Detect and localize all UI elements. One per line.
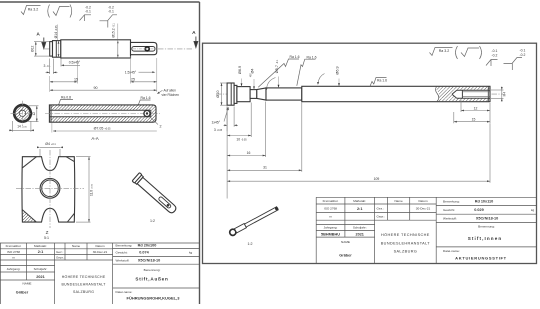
broken-out section: break line [436, 86, 439, 101]
svg-text:Ra 1.6: Ra 1.6 [307, 55, 317, 59]
end view: centerlines [11, 112, 35, 114]
svg-text:-0.1: -0.1 [492, 49, 498, 53]
svg-text:0.5x45°: 0.5x45° [69, 60, 81, 64]
sheet 2 (right) border frame [203, 43, 537, 263]
svg-text:31: 31 [263, 166, 267, 170]
svg-text:-0.1: -0.1 [85, 10, 91, 14]
svg-text:Stift,Innen: Stift,Innen [468, 236, 503, 241]
svg-text:Rd 10x110: Rd 10x110 [475, 199, 494, 203]
svg-text:HÖHERE TECHNISCHE: HÖHERE TECHNISCHE [62, 275, 106, 279]
head d10 [227, 83, 234, 105]
cone taper [257, 88, 266, 100]
roughness flag Ra 1.6 (on shaft) [370, 78, 387, 87]
dim 109 [227, 107, 490, 199]
end view: dim 14 below [9, 121, 34, 132]
svg-text:Ra 1.6: Ra 1.6 [141, 96, 151, 100]
title block sheet 2: left column texts [323, 199, 431, 244]
end view: concentric circles [14, 104, 32, 122]
svg-text:Rd 20x100: Rd 20x100 [138, 244, 157, 248]
svg-text:X5CrNi18-10: X5CrNi18-10 [476, 216, 498, 220]
dim 16 [227, 102, 266, 158]
bracketed general finish symbol (sheet 2) [456, 46, 482, 59]
svg-text:-0.2: -0.2 [492, 54, 498, 58]
svg-text:Gräber: Gräber [339, 253, 352, 257]
svg-text:Ø4 +0.1: Ø4 +0.1 [45, 142, 56, 146]
radius leader arc left [267, 78, 276, 90]
roughness flag Ra 0.8 over section [57, 100, 73, 105]
title block sheet 1: left column texts [6, 244, 108, 285]
title block sheet 2: right column [443, 200, 535, 253]
long shaft d6.9 [302, 86, 490, 101]
svg-text:2: 2 [160, 125, 162, 129]
section A-A: cross hole [144, 110, 150, 116]
svg-text:HÖHERE TECHNISCHE: HÖHERE TECHNISCHE [381, 233, 430, 237]
edge tolerance flag 1 (sheet 2) [486, 60, 498, 67]
dim M4 at right end [491, 87, 504, 102]
centerline main view (sheet 2) [216, 93, 503, 95]
svg-text:kg: kg [189, 251, 193, 255]
svg-text:Name: Name [394, 199, 403, 203]
dimension d15.2 -0.1 (vertical text above) [117, 24, 119, 40]
centerline of main view (sheet 1) [44, 48, 194, 50]
svg-text:1.5x45°: 1.5x45° [125, 70, 137, 74]
svg-text:BUNDESLEHRANSTALT: BUNDESLEHRANSTALT [61, 283, 106, 287]
svg-text:Gewicht:: Gewicht: [443, 208, 455, 212]
svg-text:Gepr.:: Gepr.: [56, 256, 65, 260]
svg-text:Name: Name [72, 244, 81, 248]
svg-text:Ra 1.6: Ra 1.6 [290, 55, 300, 59]
svg-text:2:1: 2:1 [38, 250, 44, 254]
svg-text:Gez.:: Gez.: [377, 207, 385, 211]
dimension d14 -0.05 (vertical text above) [57, 25, 59, 41]
surface finish note Ra 3.2 (sheet 1) [21, 6, 41, 15]
svg-text:A: A [36, 31, 40, 37]
dim bore 7.05 +0.05 [53, 130, 157, 132]
section d5.7 [266, 88, 302, 100]
leader 2 at section end [150, 117, 158, 125]
svg-text:Freimaßtol.: Freimaßtol. [323, 199, 339, 203]
svg-text:A-A: A-A [91, 136, 98, 141]
title block sheet 1: right column [116, 244, 193, 294]
svg-text:15: 15 [74, 78, 78, 82]
svg-text:12: 12 [474, 106, 478, 110]
svg-text:NAME: NAME [23, 282, 32, 286]
section A-A: centerline [45, 113, 160, 115]
svg-text:NAME: NAME [341, 240, 350, 244]
svg-text:Ø15.2 -0.1: Ø15.2 -0.1 [112, 23, 116, 38]
svg-text:Werkstoff:: Werkstoff: [443, 217, 457, 221]
svg-text:45°: 45° [249, 73, 253, 77]
svg-text:FÜHRUNGSROHR,KUGEL,3: FÜHRUNGSROHR,KUGEL,3 [127, 296, 181, 301]
svg-text:Ra 0.8: Ra 0.8 [61, 96, 71, 100]
svg-text:BUNDESLEHRANSTALT: BUNDESLEHRANSTALT [381, 241, 431, 245]
svg-text:Maßstab:: Maßstab: [353, 199, 366, 203]
svg-text:90: 90 [94, 86, 98, 90]
svg-text:A: A [192, 30, 196, 36]
title block sheet 1: grid lines [0, 243, 200, 304]
svg-text:12: 12 [32, 112, 36, 116]
dim 12 [461, 100, 490, 112]
detail Z hole circles [40, 178, 60, 198]
section A-A: upper wall hatch [50, 105, 155, 110]
svg-text:ISO 2768: ISO 2768 [7, 250, 20, 254]
svg-text:0.029: 0.029 [474, 208, 484, 212]
main view: collar section d14 [53, 41, 61, 58]
detail view Z outline [22, 157, 75, 222]
title block sheet 2: school name [381, 233, 431, 254]
surface finish note Ra 3.2 (sheet 2) [430, 48, 453, 56]
section d6.9 [237, 87, 250, 102]
detail Z vertical dim 11.8 [76, 157, 91, 222]
svg-text:-0.1: -0.1 [520, 49, 526, 53]
broken-out section: hatch [436, 87, 489, 90]
svg-text:Datei-name:: Datei-name: [116, 290, 133, 294]
detail Z centerlines [49, 150, 51, 228]
svg-text:Datei-name:: Datei-name: [443, 249, 460, 253]
svg-text:1:2: 1:2 [248, 242, 253, 246]
svg-text:Werkstoff:: Werkstoff: [116, 259, 130, 263]
svg-text:30-Dec-21: 30-Dec-21 [93, 250, 108, 254]
svg-text:Ø6.9: Ø6.9 [238, 66, 242, 74]
svg-text:Bemerkung:: Bemerkung: [116, 244, 133, 248]
svg-text:Ra 3.2: Ra 3.2 [439, 49, 450, 53]
detail Z corner chamfer lines [22, 157, 74, 222]
svg-text:SALZBURG: SALZBURG [73, 290, 94, 294]
svg-text:Ø12: Ø12 [30, 45, 34, 52]
svg-text:Gepr.:: Gepr.: [377, 215, 386, 219]
svg-text:Ra 1.6: Ra 1.6 [377, 78, 387, 82]
roughness flag Ra 1.6 (to neck) [258, 59, 299, 87]
svg-text:1x45°: 1x45° [211, 120, 220, 124]
svg-text:M4: M4 [502, 92, 506, 97]
svg-text:5BHMBHU: 5BHMBHU [321, 232, 340, 236]
label d5.7 -0.1 [278, 77, 280, 88]
svg-text:ISO 2768: ISO 2768 [324, 207, 337, 211]
svg-text:AKTUIERUNGSSTIFT: AKTUIERUNGSSTIFT [455, 256, 507, 261]
svg-text:10 -0.05: 10 -0.05 [236, 138, 247, 142]
bore outline (threaded hole M4) [452, 90, 490, 98]
svg-text:5:1: 5:1 [44, 236, 49, 240]
dim 10 -0.05 [227, 103, 251, 138]
svg-text:Schuljahr:: Schuljahr: [353, 226, 367, 230]
svg-text:Gräber: Gräber [16, 290, 29, 294]
svg-text:Datum: Datum [418, 199, 428, 203]
svg-text:m: m [329, 215, 332, 219]
dim 25 [131, 81, 157, 83]
label d6.9 first [241, 79, 243, 87]
dimension d12 (vertical, left of part) [34, 42, 49, 57]
svg-text:Ø4: Ø4 [250, 68, 254, 73]
svg-text:0.074: 0.074 [139, 251, 149, 255]
svg-text:Ra 3.2: Ra 3.2 [28, 8, 39, 12]
label d4 [253, 79, 255, 89]
dim 15 [454, 103, 490, 123]
svg-text:Gez.:: Gez.: [56, 250, 64, 254]
section A-A: outer tube [49, 105, 156, 122]
neck d4 [250, 90, 257, 99]
section A-A: bore lines [49, 105, 150, 122]
edge tolerance flag 1 (sheet 1) [80, 15, 92, 21]
svg-text:2021: 2021 [355, 232, 363, 236]
roughness flag Ra 1.6 over section [137, 100, 151, 105]
svg-text:2:1: 2:1 [357, 207, 363, 211]
roughness flag Ra 1.6 (second) [297, 59, 316, 86]
bracketed general finish symbol (sheet 1) [48, 5, 72, 18]
section A-A: lower wall hatch [50, 117, 155, 122]
dim 15 [50, 81, 78, 83]
svg-text:kg: kg [531, 208, 535, 212]
radius leader arc right [318, 74, 325, 84]
svg-text:SALZBURG: SALZBURG [394, 250, 418, 254]
dim d10 (head) [220, 83, 227, 105]
detail Z corner hatch [22, 210, 36, 222]
svg-text:Stift,Außen: Stift,Außen [135, 277, 168, 282]
collar ring [234, 85, 237, 103]
svg-text:30-Dec-21: 30-Dec-21 [416, 207, 431, 211]
svg-text:X5CrNi18-10: X5CrNi18-10 [138, 259, 160, 263]
title block sheet 2: grid lines [316, 197, 536, 263]
svg-text:1:2: 1:2 [150, 219, 155, 223]
main view: slot outline [132, 47, 155, 52]
title block sheet 1: school name [61, 275, 106, 294]
svg-text:Bemerkung:: Bemerkung: [443, 200, 460, 204]
svg-text:Freimaßtol.: Freimaßtol. [6, 244, 22, 248]
main view: ring section d12 [50, 42, 53, 57]
svg-text:Ø10: Ø10 [216, 91, 220, 98]
svg-text:Jahrgang:: Jahrgang: [324, 226, 338, 230]
small scale view 1:2 (sheet 2, 3d rod) [229, 205, 280, 236]
svg-text:3 -0.05: 3 -0.05 [214, 128, 223, 132]
svg-text:Ø6.9: Ø6.9 [335, 66, 339, 74]
label d6.9 second [338, 79, 340, 87]
end view: vertical dim 12 [28, 106, 39, 122]
svg-text:16: 16 [247, 151, 251, 155]
svg-text:2021: 2021 [36, 275, 44, 279]
main view: cross hole [145, 47, 149, 51]
main view: long shaft d15.2 [61, 40, 131, 58]
svg-text:109: 109 [374, 177, 380, 181]
svg-text:Gewicht:: Gewicht: [116, 251, 128, 255]
svg-text:Datum: Datum [95, 244, 105, 248]
dim 90 [50, 89, 157, 91]
main view: end section with slot [131, 42, 157, 54]
svg-text:Benennung:: Benennung: [478, 225, 495, 229]
svg-text:Maßstab:: Maßstab: [34, 244, 47, 248]
svg-text:-0.2: -0.2 [520, 53, 526, 57]
section A-A: solid end zone hatch [151, 110, 156, 117]
svg-text:15: 15 [472, 118, 476, 122]
dim 31 [227, 103, 302, 172]
edge tolerance flag 2 (sheet 2) [504, 58, 523, 71]
svg-text:Benennung:: Benennung: [144, 268, 161, 272]
svg-text:Ø14 -0.05: Ø14 -0.05 [54, 25, 58, 38]
svg-text:25: 25 [131, 78, 135, 82]
svg-text:vier Flächen: vier Flächen [162, 93, 180, 97]
svg-text:Z: Z [46, 230, 49, 235]
svg-text:Jahrgang:: Jahrgang: [7, 267, 21, 271]
svg-text:m: m [12, 256, 15, 260]
svg-text:Schuljahr:: Schuljahr: [34, 267, 48, 271]
svg-text:Ø7.05 +0.05: Ø7.05 +0.05 [94, 126, 112, 130]
sheet 1 (left) border frame [0, 2, 200, 304]
small scale view 1:2 (sheet1, 3d pin) [132, 173, 178, 216]
edge tolerance flag 2 (sheet 1) [100, 15, 118, 28]
svg-text:-0.1: -0.1 [108, 10, 114, 14]
